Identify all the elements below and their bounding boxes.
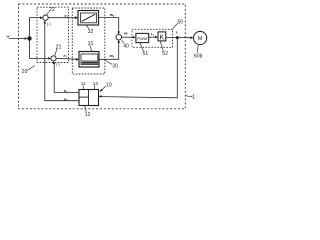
sensor block 12 with cells 11 and 13 bbox=[79, 90, 99, 106]
svg-text:(-): (-) bbox=[56, 62, 60, 66]
controller box 32 bbox=[78, 11, 99, 26]
leader for 60b bbox=[197, 45, 198, 53]
svg-text:M: M bbox=[198, 36, 202, 42]
svg-text:52: 52 bbox=[162, 51, 168, 57]
svg-text:PWM: PWM bbox=[137, 36, 148, 41]
arrowhead into summing 40 bottom bbox=[117, 40, 120, 43]
label 50 with leader bbox=[173, 23, 178, 29]
svg-text:x: x bbox=[175, 30, 178, 35]
dashed box 20 bbox=[37, 7, 69, 62]
svg-text:1: 1 bbox=[192, 94, 195, 100]
svg-text:50: 50 bbox=[178, 19, 184, 25]
arrowhead into summing 22 left bbox=[40, 16, 43, 19]
svg-text:10: 10 bbox=[106, 82, 112, 88]
svg-text:13: 13 bbox=[93, 81, 99, 86]
svg-text:51: 51 bbox=[143, 51, 149, 57]
summing junction 22 bbox=[43, 15, 48, 20]
svg-text:12: 12 bbox=[85, 112, 91, 118]
wire box 31 to summing 40 bbox=[99, 42, 119, 59]
summing junction 21 bbox=[51, 56, 56, 61]
wire PWM to K 52 bbox=[149, 36, 156, 38]
outer dashed box 1 bbox=[19, 4, 186, 109]
label 1 with squiggle leader bbox=[186, 95, 192, 97]
dashed box 30 bbox=[72, 8, 105, 74]
svg-text:s1: s1 bbox=[150, 31, 155, 37]
svg-text:22: 22 bbox=[49, 7, 55, 13]
wire K to motor M bbox=[166, 37, 192, 39]
svg-text:n2: n2 bbox=[64, 96, 68, 102]
wire block 12 lower output to summing 22 bbox=[45, 23, 79, 101]
wire box 32 to summing 40 bbox=[99, 18, 119, 33]
label 31 with leader bbox=[90, 45, 92, 51]
svg-text:31: 31 bbox=[88, 41, 94, 47]
wire summing 40 to PWM 51 bbox=[122, 36, 134, 38]
arrowhead w into node bbox=[25, 37, 28, 40]
arrowhead into box 31 bbox=[76, 58, 79, 61]
node dot at w split bbox=[27, 36, 31, 40]
arrowhead into summing 40 top bbox=[117, 32, 120, 35]
motor M 60b bbox=[194, 31, 207, 44]
svg-text:n1: n1 bbox=[64, 88, 68, 94]
leader for label 12 bbox=[85, 106, 87, 113]
arrowhead into summing 21 bottom bbox=[53, 61, 56, 64]
wire summing 21 to box 31 bbox=[56, 58, 77, 61]
summing junction 40 bbox=[116, 34, 122, 40]
wire w input bbox=[9, 38, 27, 40]
label 22 with leader bbox=[47, 11, 50, 15]
svg-text:w: w bbox=[7, 34, 10, 39]
label 51 with leader bbox=[140, 43, 143, 51]
label 52 with leader bbox=[160, 41, 163, 51]
arrowhead into PWM 51 bbox=[133, 36, 136, 39]
arrowhead into block 12 right bbox=[99, 95, 102, 98]
svg-text:11: 11 bbox=[81, 81, 86, 86]
label 40 with leader bbox=[122, 40, 124, 43]
svg-text:e2: e2 bbox=[65, 13, 69, 19]
svg-text:K: K bbox=[160, 35, 165, 42]
svg-text:m1: m1 bbox=[110, 53, 115, 59]
dashed box 50 bbox=[132, 29, 173, 47]
leader for label 13 bbox=[93, 85, 96, 89]
controller box 31 bbox=[79, 52, 99, 68]
arrow leader for label 10 bbox=[101, 86, 106, 91]
node dot on motor line bbox=[176, 36, 179, 39]
arrowhead into summing 22 bottom bbox=[44, 20, 47, 23]
label 30 with leader bbox=[105, 60, 112, 64]
svg-text:32: 32 bbox=[88, 29, 94, 35]
wire block 12 upper output to summing 21 bbox=[54, 63, 79, 92]
commutation box K 52 bbox=[158, 32, 166, 41]
svg-text:21: 21 bbox=[56, 44, 62, 50]
svg-text:m2: m2 bbox=[110, 12, 115, 18]
PWM box 51 bbox=[136, 33, 149, 42]
wire summing 22 to box 32 bbox=[48, 17, 76, 19]
svg-text:(-): (-) bbox=[47, 22, 51, 26]
arrowhead into motor M bbox=[191, 36, 194, 39]
arrowhead into summing 21 left bbox=[48, 57, 51, 60]
arrowhead into box 32 bbox=[75, 16, 78, 19]
wire node to summing 22 bbox=[30, 18, 42, 39]
svg-text:30: 30 bbox=[112, 64, 118, 70]
svg-text:20: 20 bbox=[22, 69, 28, 75]
svg-text:60b: 60b bbox=[194, 54, 203, 60]
label 32 with leader bbox=[87, 25, 89, 29]
wire node to summing 21 bbox=[30, 39, 50, 59]
arrowhead into K 52 bbox=[155, 36, 158, 39]
label 21 with leader bbox=[55, 49, 57, 56]
wire feedback from motor line down and left to block 12 bbox=[101, 38, 177, 98]
svg-text:m: m bbox=[124, 31, 128, 36]
leader for label 11 bbox=[82, 86, 85, 90]
label 20 with leader bbox=[28, 66, 35, 71]
svg-text:e1: e1 bbox=[64, 53, 68, 59]
svg-text:40: 40 bbox=[123, 44, 129, 50]
